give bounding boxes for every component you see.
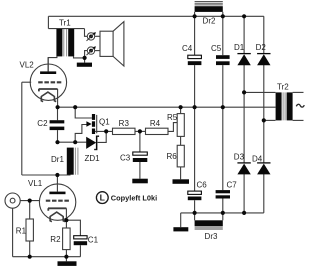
- VL1 anode bar: [49, 192, 65, 195]
- svg-text:L: L: [100, 193, 105, 203]
- wire: Tr2 primary top: [293, 91, 304, 93]
- wire: Dr3 right stub: [222, 213, 224, 220]
- junction: input / R1 / VL1 grid: [28, 199, 32, 203]
- diode D2: [257, 54, 270, 66]
- wire: input jack ground leg: [12, 208, 14, 257]
- capacitor C3 (electrolytic): [133, 152, 148, 162]
- wire: terminal1 to speaker: [95, 35, 100, 37]
- copyleft symbol: [96, 192, 108, 204]
- svg-text:ZD1: ZD1: [85, 154, 101, 163]
- wire: terminal2 to speaker: [95, 50, 100, 52]
- wire: R6 to ground: [180, 167, 182, 179]
- VL2 heater chevron: [41, 92, 56, 102]
- svg-text:Dr1: Dr1: [51, 155, 64, 164]
- ground under C3: [132, 179, 148, 184]
- junction: Tr1 secondary / ground / terminal2: [83, 56, 87, 60]
- choke Dr2 core lines: [195, 2, 223, 5]
- wire: D2/D4 column (right vertical): [263, 16, 265, 213]
- resistor R6: [177, 145, 184, 167]
- svg-text:Tr1: Tr1: [59, 18, 71, 27]
- wire: ZD1 cathode to source node: [98, 131, 107, 142]
- VL2 anode bar: [40, 71, 56, 74]
- svg-text:Tr2: Tr2: [277, 83, 289, 92]
- wire: VL2 cathode drop to mid rail: [57, 89, 59, 107]
- svg-text:C4: C4: [182, 44, 193, 53]
- wire: Tr2 primary bottom: [293, 119, 304, 121]
- wire: R5 top stub: [180, 107, 182, 113]
- transformer Tr1 secondary winding bar: [68, 29, 74, 56]
- MOSFET Q1: [86, 114, 96, 134]
- svg-text:C7: C7: [227, 181, 238, 190]
- junction: VL1 anode / Dr1 node: [55, 173, 59, 177]
- transformer Tr1 core lines: [64, 29, 67, 56]
- diode D1: [237, 54, 250, 66]
- wire: Tr1 winding top bus: [48, 28, 84, 30]
- wire: C1 branch: [66, 220, 80, 257]
- wire: Tr1 label-box left riser: [47, 16, 49, 28]
- wire: grid-bias node horizontal: [58, 141, 87, 143]
- svg-text:VL2: VL2: [20, 60, 35, 69]
- wire: VL1 cathode drop: [65, 208, 67, 220]
- junction: R3/R4/C3: [138, 129, 142, 133]
- wire: ground stub below R2: [65, 257, 67, 262]
- wire: bottom supply rail: [181, 212, 264, 214]
- svg-text:Dr2: Dr2: [203, 16, 216, 25]
- wire: Tr1 primary bottom to VL2 anode: [48, 56, 57, 71]
- ground at bottom rail left: [173, 227, 188, 231]
- svg-text:C1: C1: [88, 236, 99, 245]
- wire: C5 column top: [222, 16, 224, 55]
- junction: D2/D4 column Tr2 bottom tap: [262, 118, 266, 122]
- svg-text:D3: D3: [234, 153, 245, 162]
- zener diode ZD1: [86, 136, 99, 151]
- junction: R5 top on mid rail: [179, 105, 183, 109]
- diode D3: [237, 163, 250, 175]
- junction: VL1 cathode / R2 / C1: [64, 218, 68, 222]
- svg-text:R6: R6: [167, 152, 178, 161]
- svg-text:C2: C2: [37, 119, 48, 128]
- svg-text:R4: R4: [150, 119, 161, 128]
- wire: Q1 drain riser: [75, 107, 92, 118]
- junction: D1 top on top rail: [242, 14, 246, 18]
- junction: D1/D3 column Tr2 top tap: [242, 90, 246, 94]
- junction: R1 bottom rail: [28, 255, 32, 259]
- wire: ground stub under Tr1: [84, 58, 86, 63]
- junction: D3 bottom rail: [242, 211, 246, 215]
- junction: Q1 drain riser on mid rail: [73, 105, 77, 109]
- VL2 grid dashed line: [38, 81, 61, 83]
- wire: R3 to R4: [135, 130, 146, 132]
- resistor R3: [113, 128, 136, 134]
- VL1 heater chevron: [50, 212, 65, 221]
- wire: C2 column: [57, 107, 59, 142]
- resistor R5: [177, 114, 184, 137]
- VL2 anode riser: [47, 58, 49, 72]
- capacitor C6 (electrolytic): [188, 191, 202, 200]
- capacitor C2: [50, 120, 65, 130]
- choke Dr1 core lines: [75, 148, 78, 175]
- wire: Q1 source to R3: [95, 130, 112, 132]
- wire: Dr3 left stub: [194, 213, 196, 220]
- wire: C5 to mid rail: [222, 65, 224, 107]
- speaker terminal 2: [87, 46, 96, 55]
- choke Dr2 winding bar: [195, 6, 223, 12]
- vacuum tube VL2: [30, 58, 66, 102]
- junction: Dr2 left / C4 / top rail: [193, 14, 197, 18]
- resistor R2: [63, 228, 71, 250]
- junction: Q1 source / ZD1 / R3: [104, 129, 108, 133]
- wire: amp bottom rail: [13, 256, 81, 258]
- svg-text:D4: D4: [252, 155, 263, 164]
- svg-text:Copyleft L0ki: Copyleft L0ki: [111, 193, 157, 202]
- svg-text:R3: R3: [119, 119, 130, 128]
- resistor R1: [26, 219, 33, 241]
- capacitor C1 (electrolytic): [74, 236, 87, 246]
- wire: C7 column: [222, 107, 224, 213]
- wire: R4 to R5 wiper jog: [168, 123, 177, 132]
- junction: C2 bottom node: [55, 140, 59, 144]
- wire: D1/D3 column: [243, 16, 245, 213]
- svg-text:C6: C6: [197, 181, 208, 190]
- wire: bottom rail ground drop: [180, 213, 182, 227]
- svg-text:R2: R2: [50, 235, 61, 244]
- choke Dr3 core lines: [195, 227, 223, 229]
- choke Dr3 winding bar: [195, 220, 223, 226]
- wire: R2 stubs: [65, 220, 67, 257]
- wire: VL1 anode riser: [56, 175, 58, 192]
- svg-text:R5: R5: [167, 113, 178, 122]
- svg-text:D1: D1: [234, 43, 245, 52]
- junction: C7 bottom rail: [221, 211, 225, 215]
- wire: C6 column: [194, 107, 196, 213]
- wire: riser to speaker terminal 1: [85, 29, 88, 37]
- junction: Dr2 right / C5 / top rail: [221, 14, 225, 18]
- ground under R2: [58, 261, 77, 266]
- svg-text:C5: C5: [211, 44, 222, 53]
- AC mains symbol: [296, 104, 304, 107]
- speaker: [100, 22, 124, 66]
- wire: C4 column top: [194, 16, 196, 55]
- diode D4: [257, 163, 270, 175]
- choke Dr2 terminal stubs: [195, 12, 223, 16]
- speaker terminal 1: [87, 32, 96, 41]
- transformer Tr2: [276, 92, 293, 120]
- wire: B+ top rail from Tr1 to D2 column: [48, 15, 263, 17]
- svg-text:VL1: VL1: [28, 179, 43, 188]
- wire: R5 to R6: [180, 136, 182, 145]
- junction: VL2 cathode / C2 / mid rail: [56, 105, 60, 109]
- wire: VL1 anode node horizontal: [22, 174, 71, 176]
- capacitor C4 (electrolytic): [188, 55, 202, 65]
- wire: left riser VL2 grid to VL1 anode node: [21, 82, 23, 175]
- wire: Tr1 secondary bottom to ground node: [74, 56, 85, 58]
- junction: C5/C7 column on mid rail: [221, 105, 225, 109]
- junction: gate node on bias wire: [73, 140, 77, 144]
- wire: C3 to ground: [139, 162, 141, 179]
- ground under R6: [173, 179, 190, 184]
- wire: Tr2 bottom tap: [264, 119, 276, 121]
- junction: R2 bottom rail / ground: [64, 255, 68, 259]
- junction: C6 bottom rail: [193, 211, 197, 215]
- svg-text:Q1: Q1: [99, 118, 110, 127]
- capacitor C5: [216, 55, 230, 65]
- wire: input jack to VL1 grid: [20, 200, 40, 202]
- wire: R1 column: [29, 201, 31, 257]
- wire: Q1 gate path: [75, 125, 87, 143]
- wire: C4 to mid rail: [194, 65, 196, 107]
- ground under Tr1 secondary: [77, 63, 92, 67]
- choke Dr1 winding bar: [67, 148, 74, 175]
- input jack: [5, 193, 20, 208]
- VL1 grid dashed line: [46, 200, 69, 202]
- wire: VL2 grid exit: [22, 81, 31, 83]
- wire: mid rail (Tr2 centre tap): [58, 106, 276, 108]
- svg-text:R1: R1: [16, 226, 27, 235]
- capacitor C7: [216, 190, 230, 198]
- VL2 cathode bar: [39, 89, 58, 91]
- svg-text:D2: D2: [256, 43, 267, 52]
- junction: C4/C6 column on mid rail: [193, 105, 197, 109]
- svg-text:Dr3: Dr3: [205, 232, 218, 241]
- wire: terminal2 drop: [85, 51, 88, 58]
- VL1 cathode bar: [48, 208, 66, 210]
- resistor R4: [146, 128, 169, 134]
- wire: C3 stub: [139, 131, 141, 152]
- wire: Tr2 top tap: [244, 91, 275, 93]
- vacuum tube VL1: [39, 184, 75, 222]
- transformer Tr1 primary winding bar: [56, 29, 62, 56]
- svg-text:C3: C3: [120, 154, 131, 163]
